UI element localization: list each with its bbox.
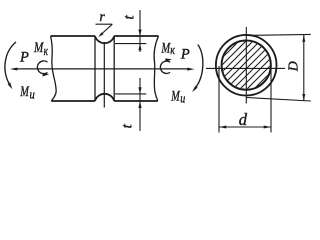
inner circle d (section) (222, 41, 271, 90)
t dim bottom lower arrowhead (138, 101, 141, 108)
svg-text:и: и (30, 87, 36, 102)
section circle vertical centerline (245, 27, 247, 104)
t dim top extension line (115, 43, 146, 45)
svg-text:r: r (99, 10, 105, 25)
groove top arc (95, 36, 114, 43)
groove left edge line (94, 37, 96, 101)
groove right edge line (113, 37, 115, 101)
shaft top edge left segment (51, 35, 95, 37)
svg-text:M: M (170, 89, 180, 105)
groove bottom arc (95, 94, 114, 101)
shaft top edge right segment (114, 35, 158, 37)
section trace line (103, 42, 105, 108)
svg-text:к: к (170, 43, 175, 57)
svg-text:t: t (121, 14, 137, 19)
torque arrow Mk right (160, 61, 170, 73)
D dim line (303, 35, 305, 101)
bending moment arc Mi right (194, 45, 203, 91)
shaft bottom edge left segment (51, 100, 95, 102)
svg-text:и: и (180, 90, 185, 105)
t dim bottom extension line (115, 93, 146, 95)
svg-text:D: D (286, 61, 301, 72)
d dim left extension line (218, 66, 220, 133)
shaft axis centerline left (17, 68, 154, 70)
section circle horizontal centerline (206, 67, 285, 69)
left break line (51, 36, 57, 101)
d dim line (219, 126, 271, 128)
shaft axis centerline right stub (154, 68, 189, 70)
r leader arrowhead (98, 32, 103, 37)
r leader diagonal (100, 24, 112, 35)
svg-text:M: M (19, 84, 29, 100)
svg-text:P: P (180, 46, 190, 62)
outer circle D (216, 35, 277, 96)
shaft bottom edge right segment (114, 100, 158, 102)
svg-text:к: к (44, 44, 48, 58)
force P left arrow (10, 68, 17, 71)
svg-text:d: d (239, 110, 248, 129)
force P right arrow (187, 68, 194, 71)
t dim top lower arrowhead (138, 44, 141, 51)
bending moment arc Mi left (5, 42, 16, 87)
D dim bottom extension line (246, 98, 311, 102)
t dim top upper arrowhead (138, 30, 141, 37)
torque arrow Mk left (37, 61, 47, 74)
svg-text:P: P (19, 49, 29, 65)
t dim bottom upper arrowhead (138, 87, 141, 94)
r leader shelf (96, 23, 113, 25)
t dim top line (139, 10, 141, 52)
hatching of section (175, 25, 318, 105)
d dim right extension line (270, 66, 272, 133)
t dim bottom line (139, 78, 141, 131)
D dim top extension line (252, 33, 311, 36)
svg-text:t: t (119, 123, 135, 128)
right break line (154, 36, 158, 101)
